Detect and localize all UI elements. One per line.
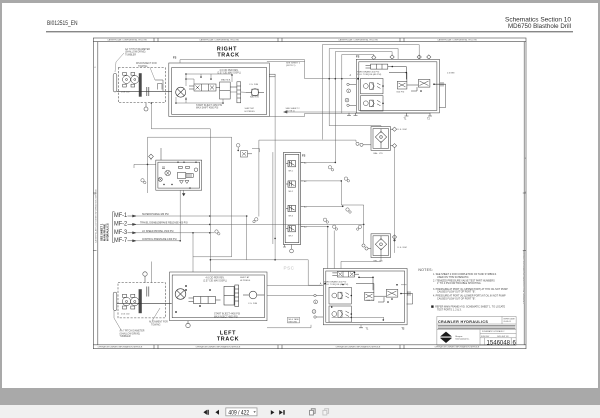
shuttle box upper bbox=[371, 127, 391, 151]
note 5 bbox=[435, 306, 505, 312]
frame zone ticks bbox=[93, 193, 526, 251]
drain circle L bbox=[186, 321, 190, 328]
mid valves TR bbox=[389, 67, 430, 92]
start inject text R bbox=[196, 104, 222, 110]
shuttle lower labels bbox=[374, 247, 407, 263]
port number text BR bbox=[313, 301, 317, 314]
T labels TR bbox=[404, 118, 431, 121]
wire v335 to A1 bbox=[335, 52, 392, 163]
gauge circle L bbox=[243, 291, 264, 299]
wire v334 to BR bbox=[333, 231, 335, 269]
shift label L bbox=[240, 276, 251, 282]
shaft line L bbox=[117, 302, 172, 304]
frame bottom strip bbox=[93, 344, 526, 346]
wire v329 to shuttle top bbox=[329, 125, 381, 128]
MF bracket bbox=[113, 212, 115, 243]
pump port square R bbox=[269, 74, 275, 77]
right pump outer box bbox=[169, 63, 269, 116]
control box left entry bbox=[134, 164, 156, 168]
drawing frame bbox=[93, 38, 526, 349]
mid valves BR bbox=[356, 277, 398, 302]
top diamonds TR bbox=[372, 55, 431, 60]
cartridge internals 1 bbox=[363, 83, 380, 90]
bottom-right brake valve block bbox=[323, 269, 407, 325]
cartridge box 3 bbox=[329, 287, 351, 304]
prev view icon bbox=[310, 409, 316, 415]
circle-slash on v363 bbox=[357, 225, 362, 230]
RIGHT TRACK title bbox=[217, 47, 240, 59]
park brake text BR bbox=[324, 280, 349, 286]
logo text bbox=[456, 335, 470, 341]
small valve on shaft R bbox=[155, 80, 163, 91]
strip separators bottom bbox=[153, 345, 155, 349]
port number text TR bbox=[346, 90, 350, 102]
prev-page-with-bar icon bbox=[203, 410, 207, 415]
left pump outer box bbox=[170, 272, 267, 321]
motor circles R bbox=[123, 72, 139, 87]
next view icon (disabled) bbox=[323, 409, 329, 415]
servo valve L bbox=[189, 297, 221, 304]
wire A1 run bbox=[301, 161, 336, 163]
drain symbol R bbox=[144, 103, 148, 111]
left track motor dashed box bbox=[113, 283, 165, 318]
pressure list wires bbox=[136, 216, 364, 241]
wire bank left vertical bbox=[272, 152, 274, 244]
shuttle upper left ports bbox=[356, 142, 371, 146]
cartridge box 1 bbox=[361, 79, 384, 94]
tumbler capsule bbox=[113, 73, 117, 92]
inner frame border lines bbox=[97, 42, 99, 345]
prev icon bbox=[215, 410, 219, 415]
circle-slash end of MF3 bbox=[215, 230, 220, 235]
junction dots pump R bbox=[175, 73, 233, 104]
start inject text L bbox=[214, 313, 240, 319]
shuttle box lower bbox=[371, 234, 391, 258]
wire A2 run bbox=[301, 181, 364, 244]
bank valve 4 bbox=[286, 226, 296, 232]
tumbler label R bbox=[125, 48, 150, 56]
wire motor drain run bbox=[151, 103, 210, 129]
bank valve 2 bbox=[286, 181, 296, 187]
BR inner bottom wire bbox=[332, 285, 407, 320]
note 4 bbox=[433, 295, 506, 301]
shift label R bbox=[245, 107, 256, 113]
shuttle upper right port diamonds bbox=[391, 127, 397, 148]
servo valve R bbox=[189, 84, 220, 91]
tank stubs below TR block bbox=[347, 113, 432, 116]
leader R bbox=[115, 53, 155, 80]
wire bank top entry bbox=[252, 149, 260, 152]
wire v341 bbox=[342, 55, 374, 114]
junction dots center bbox=[151, 78, 344, 261]
leader L bbox=[114, 308, 160, 330]
title block table bbox=[437, 317, 516, 346]
logo diamond bbox=[439, 332, 453, 343]
control box drop wire bbox=[180, 190, 247, 272]
circle-slash symbols mid bbox=[236, 144, 351, 231]
circle pair outside left bbox=[141, 179, 146, 184]
header rule bbox=[46, 31, 573, 32]
shaft line R bbox=[117, 90, 172, 92]
wire bank top feeder bbox=[259, 140, 356, 142]
compensator L bbox=[224, 285, 239, 306]
note 3 bbox=[433, 288, 508, 294]
wires bottom right bbox=[267, 286, 361, 328]
next icon bbox=[271, 410, 275, 415]
top-right brake valve block bbox=[356, 59, 439, 113]
motor circles L bbox=[122, 294, 139, 309]
tank label box bottom left of BR bbox=[289, 318, 300, 324]
wire y112 label bbox=[286, 108, 301, 113]
compensator R bbox=[220, 82, 241, 103]
cartridge box 2 bbox=[361, 96, 384, 111]
wire shuttle right vertical bbox=[394, 147, 396, 253]
note 1 bbox=[433, 273, 497, 279]
cartridge box 4 bbox=[329, 306, 351, 322]
cartridge internals 2 bbox=[363, 100, 380, 107]
wire into left motor box bbox=[151, 262, 153, 283]
pump circle R bbox=[176, 87, 186, 97]
wire A3 run bbox=[301, 205, 343, 207]
junction dots TR bbox=[357, 66, 435, 104]
page field bbox=[226, 408, 257, 417]
park brake text TR bbox=[357, 71, 382, 77]
MF arrows bbox=[128, 215, 137, 242]
frame top strip bbox=[93, 41, 526, 43]
wire under pump box to right bbox=[269, 113, 430, 117]
control box port dots bbox=[163, 162, 196, 189]
shuttle lower left ports bbox=[362, 244, 371, 250]
T labels BR bbox=[366, 327, 405, 330]
gauge labels R bbox=[249, 84, 260, 99]
pump displ text R bbox=[217, 70, 241, 75]
junction dots BR bbox=[324, 272, 402, 321]
pump internal wires R bbox=[176, 74, 246, 103]
tank stubs below BR bbox=[359, 327, 363, 329]
breather symbol L bbox=[143, 272, 147, 283]
next-page-with-bar icon bbox=[279, 410, 283, 415]
boundary box mid-left bbox=[148, 137, 232, 257]
alignment label L bbox=[149, 321, 168, 327]
long vertical from pump port bbox=[274, 77, 276, 260]
wire pump top feeder bbox=[180, 60, 356, 79]
shuttle lower right port diamonds bbox=[392, 235, 396, 241]
bank port ticks bbox=[301, 162, 304, 226]
coupling R bbox=[147, 87, 149, 96]
wire y61 label bbox=[286, 63, 301, 68]
control box tank stub bbox=[183, 190, 185, 193]
shuttle upper labels bbox=[374, 129, 407, 155]
title block small right text bbox=[504, 318, 516, 324]
strip separators top bbox=[153, 38, 155, 42]
disconnect label R bbox=[136, 63, 157, 68]
note 5 bullet bbox=[431, 305, 433, 307]
pump displ text L bbox=[203, 278, 227, 283]
brake stack R bbox=[139, 73, 142, 97]
LEFT TRACK title bbox=[217, 331, 239, 343]
tumbler label L bbox=[120, 330, 145, 339]
gauge circle R bbox=[246, 89, 264, 96]
list junction dots bbox=[179, 215, 364, 241]
wire staircase top right bbox=[322, 45, 419, 140]
see sheet 1 vertical bold bbox=[100, 223, 110, 241]
cartridge internals 4 bbox=[332, 311, 349, 318]
bank valve 3 bbox=[286, 205, 296, 211]
bank valve 1 bbox=[286, 161, 296, 167]
cartridge internals 3 bbox=[332, 292, 349, 299]
brake stack L bbox=[139, 289, 142, 313]
vertical to psc symbol bbox=[258, 140, 260, 216]
see note box left of bank bbox=[241, 151, 253, 157]
orifice right TR bbox=[434, 82, 446, 108]
wire A4 run bbox=[301, 227, 328, 269]
disclaimer lines bbox=[438, 325, 516, 329]
bank drain bbox=[283, 245, 293, 253]
vertical to left pump bbox=[209, 129, 211, 272]
diamond flag mid-left bbox=[149, 148, 161, 160]
mid-left control box bbox=[156, 160, 202, 190]
pressure list texts bbox=[140, 213, 188, 241]
control box internals bbox=[158, 166, 198, 183]
central valve bank bbox=[283, 153, 300, 245]
svg-text:409 / 422: 409 / 422 bbox=[228, 409, 249, 416]
top valve spool TR bbox=[366, 64, 393, 69]
note 2 bbox=[433, 279, 495, 285]
right track motor dashed box bbox=[113, 68, 165, 103]
orifice right BR bbox=[401, 291, 413, 304]
wire pump port to long vertical bbox=[148, 45, 431, 286]
coupling L bbox=[147, 287, 149, 297]
wire bottom collector bbox=[210, 260, 321, 285]
port stubs BR left bbox=[312, 285, 323, 318]
port stubs TR left bbox=[345, 83, 356, 106]
pump circle L bbox=[175, 289, 186, 300]
top valve spool BR bbox=[332, 272, 359, 278]
junction dots pump L bbox=[175, 285, 211, 313]
wire y112 arrow feeder bbox=[284, 111, 357, 113]
